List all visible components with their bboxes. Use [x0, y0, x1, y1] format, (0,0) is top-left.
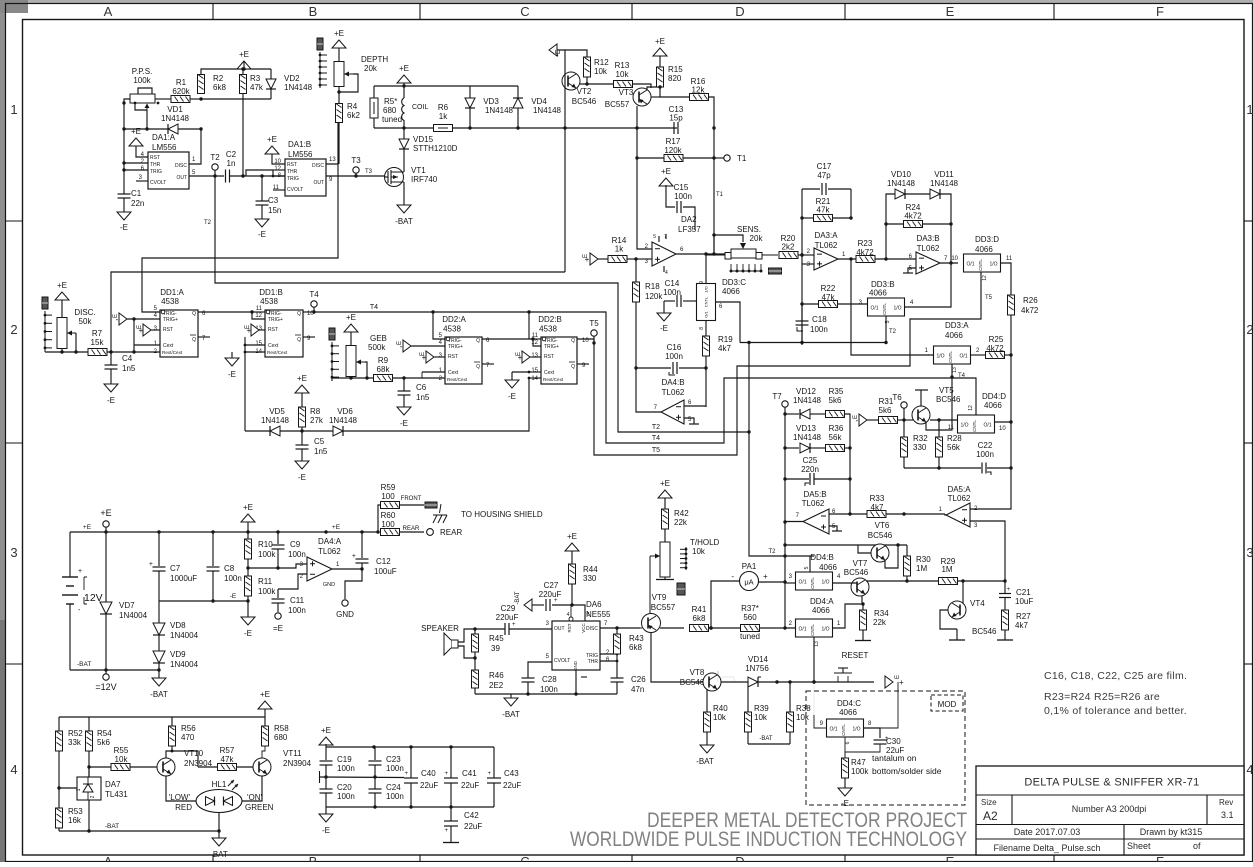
svg-text:-E: -E [660, 324, 668, 333]
svg-text:VT6: VT6 [875, 521, 890, 530]
svg-text:4066: 4066 [984, 401, 1002, 410]
svg-text:TRIG+: TRIG+ [163, 317, 178, 323]
ground -E c4 [104, 384, 118, 392]
wire vt8 out row [717, 670, 719, 676]
svg-text:11: 11 [948, 425, 955, 431]
svg-text:VD3: VD3 [483, 97, 499, 106]
wire da4a -in [278, 574, 307, 589]
svg-text:R53: R53 [68, 807, 83, 816]
wire [155, 98, 171, 100]
svg-text:+E: +E [83, 524, 92, 531]
svg-text:C16: C16 [667, 343, 682, 352]
wire DD3:C cntl [716, 302, 741, 343]
svg-text:100n: 100n [386, 764, 404, 773]
svg-text:BC546: BC546 [936, 395, 961, 404]
wire VD1 row [124, 128, 168, 130]
wire [190, 98, 201, 100]
power +E r8 [295, 385, 309, 393]
svg-text:4066: 4066 [812, 606, 830, 615]
connector pad disc [42, 297, 48, 309]
wire R12 bottom to base row [580, 77, 587, 84]
svg-text:DD4:A: DD4:A [810, 597, 834, 606]
svg-text:DA3:A: DA3:A [814, 231, 838, 240]
connector pad sens [769, 268, 782, 274]
svg-text:MOD: MOD [938, 700, 957, 709]
svg-text:THR: THR [287, 169, 298, 175]
svg-text:RST: RST [567, 623, 572, 632]
svg-text:Q: Q [297, 311, 301, 317]
svg-text:C22: C22 [978, 441, 993, 450]
svg-text:6k8: 6k8 [693, 614, 706, 623]
svg-text:VD8: VD8 [170, 621, 186, 630]
wire +E rail [70, 531, 378, 533]
svg-text:+E: +E [660, 479, 670, 488]
svg-text:Q: Q [297, 337, 301, 343]
svg-text:TL431: TL431 [105, 790, 128, 799]
wire T4 drop to dd2a trig [433, 312, 445, 339]
wire DA3B feedback [904, 224, 951, 307]
wire CVOLT stub B [273, 189, 285, 191]
MOD label box [931, 695, 963, 711]
svg-text:A: A [104, 4, 113, 19]
svg-text:-BAT: -BAT [105, 823, 119, 830]
svg-text:Rext/Cext: Rext/Cext [267, 350, 288, 355]
power -BAT r40 [700, 745, 714, 753]
power +E disc [55, 292, 69, 300]
ground -E c6 [397, 407, 411, 415]
wire THR/TRIG tie [273, 169, 285, 171]
svg-text:R6: R6 [438, 103, 449, 112]
svg-text:100k: 100k [133, 76, 151, 85]
svg-text:-E: -E [244, 629, 252, 638]
wire dd2a Qbar stub [482, 363, 494, 365]
svg-text:15p: 15p [669, 114, 683, 123]
svg-text:TRIG+: TRIG+ [448, 344, 463, 350]
svg-text:RESET: RESET [842, 651, 869, 660]
grid tick [6, 220, 23, 222]
svg-text:R7: R7 [92, 329, 103, 338]
svg-text:1M: 1M [916, 564, 927, 573]
svg-text:C25: C25 [803, 456, 818, 465]
svg-text:-BAT: -BAT [150, 690, 168, 699]
power -BAT 555 [510, 694, 512, 698]
svg-text:R54: R54 [97, 729, 112, 738]
node T5 terminal [591, 330, 597, 336]
svg-text:100n: 100n [386, 792, 404, 801]
grid tick [212, 4, 214, 20]
svg-text:8: 8 [587, 612, 590, 618]
wire bottom rail led [59, 830, 219, 832]
svg-text:DISC: DISC [175, 163, 187, 169]
svg-text:VD14: VD14 [748, 655, 769, 664]
svg-text:SPEAKER: SPEAKER [421, 624, 459, 633]
wire C2 to DA1:B TRIG [246, 175, 285, 177]
svg-text:22n: 22n [131, 199, 144, 208]
svg-text:330: 330 [913, 443, 927, 452]
wire T5 route [594, 272, 981, 455]
svg-text:PA1: PA1 [742, 562, 757, 571]
wire DISC up to R2 [189, 129, 201, 164]
svg-text:CNTL: CNTL [978, 259, 983, 271]
grid tick [6, 442, 23, 444]
wire VT6 base [858, 545, 871, 553]
wire caps mid tie [319, 771, 321, 783]
svg-text:R1: R1 [176, 78, 187, 87]
svg-text:220n: 220n [801, 465, 819, 474]
svg-text:3: 3 [1246, 545, 1253, 560]
wire VT2 to R7 node [111, 272, 565, 352]
svg-text:P.P.S.: P.P.S. [132, 67, 153, 76]
svg-text:15: 15 [255, 341, 262, 347]
svg-text:Size: Size [981, 798, 997, 807]
svg-text:DD3:D: DD3:D [975, 235, 999, 244]
ground -E r11 [241, 617, 255, 625]
svg-text:Q: Q [571, 338, 575, 344]
power +E dd1b rst [251, 324, 259, 336]
wire top rail led [59, 716, 265, 718]
svg-text:100n: 100n [663, 288, 681, 297]
svg-text:R37*: R37* [741, 604, 759, 613]
wire cvolt c28 [528, 662, 552, 678]
svg-text:GND: GND [573, 660, 578, 671]
svg-text:C6: C6 [416, 383, 427, 392]
svg-text:VD9: VD9 [170, 650, 186, 659]
wire vt9 row [620, 627, 642, 629]
svg-text:+E: +E [346, 313, 356, 322]
svg-text:470: 470 [181, 733, 195, 742]
wire R32 top [903, 420, 905, 437]
svg-text:DA4:B: DA4:B [661, 378, 684, 387]
svg-text:3: 3 [10, 545, 17, 560]
svg-text:VCC: VCC [581, 623, 586, 633]
svg-text:R57: R57 [220, 746, 235, 755]
wire DA3A -in [800, 253, 803, 256]
svg-text:13: 13 [329, 157, 336, 163]
svg-text:C28: C28 [542, 675, 557, 684]
node T3 [353, 167, 359, 173]
connector pad geb [329, 328, 335, 340]
svg-text:1n5: 1n5 [314, 447, 328, 456]
svg-text:1/O: 1/O [989, 262, 997, 268]
svg-text:C41: C41 [462, 769, 477, 778]
wire vt2 base row [587, 83, 614, 85]
terminal GND [342, 600, 348, 606]
svg-text:20k: 20k [750, 234, 764, 243]
svg-text:+: + [1006, 587, 1010, 593]
svg-text:22uF: 22uF [461, 781, 479, 790]
svg-text:100n: 100n [224, 574, 242, 583]
svg-text:1/O: 1/O [704, 286, 709, 292]
svg-text:C5: C5 [314, 437, 325, 446]
svg-text:R4: R4 [347, 102, 358, 111]
terminal =E [275, 613, 281, 619]
wire dd1b Qbar stub [303, 336, 315, 338]
ground -E dd2a trig+ [403, 340, 411, 352]
svg-text:R46: R46 [489, 671, 504, 680]
wire DD3D cntl T5 [980, 272, 982, 290]
wire dd4b cntl [809, 556, 811, 572]
svg-text:10k: 10k [713, 713, 727, 722]
wire dd2b Qbar stub [577, 363, 589, 365]
svg-text:+E: +E [661, 167, 671, 176]
svg-text:100n: 100n [976, 450, 994, 459]
svg-text:BC546: BC546 [972, 627, 997, 636]
wire DA4B +in gnd [684, 418, 694, 424]
svg-text:10: 10 [951, 256, 958, 262]
svg-text:BC546: BC546 [868, 531, 893, 540]
wire to vcc/rst [572, 605, 585, 621]
wire speaker leads [458, 629, 475, 642]
svg-text:4066: 4066 [869, 289, 887, 298]
svg-text:Rext/Cext: Rext/Cext [162, 350, 183, 355]
svg-text:C40: C40 [421, 769, 436, 778]
svg-text:O/1: O/1 [829, 727, 837, 733]
svg-text:E: E [946, 4, 955, 19]
wire DA4B out [636, 368, 661, 412]
svg-text:10k: 10k [115, 755, 129, 764]
power +E [237, 61, 251, 69]
svg-text:TL062: TL062 [917, 244, 940, 253]
ground -E dd1a trig [119, 313, 127, 325]
wire PA1 plus [759, 581, 786, 583]
svg-text:Date 2017.07.03: Date 2017.07.03 [1014, 827, 1081, 837]
wire cntl bus t2 [740, 342, 886, 344]
ground -E caps [325, 807, 327, 814]
svg-text:R19: R19 [718, 335, 733, 344]
wire DA3B out [940, 262, 958, 264]
svg-text:4k72: 4k72 [904, 212, 922, 221]
svg-text:47k: 47k [250, 83, 264, 92]
power +E coil [397, 75, 411, 83]
wire DD3B cntl T2 [885, 316, 887, 343]
svg-text:C15: C15 [674, 183, 689, 192]
svg-text:6: 6 [845, 741, 851, 744]
svg-text:C: C [520, 854, 529, 862]
svg-text:T1: T1 [716, 192, 724, 198]
svg-text:56k: 56k [947, 443, 961, 452]
power +E depth [332, 40, 346, 48]
power +E c15 [659, 178, 673, 186]
svg-text:=E: =E [273, 624, 283, 633]
svg-text:9: 9 [699, 281, 705, 284]
svg-text:DD1:A: DD1:A [160, 288, 184, 297]
svg-text:CNTL: CNTL [810, 577, 815, 589]
svg-text:R13: R13 [615, 61, 630, 70]
svg-text:DD4:D: DD4:D [982, 392, 1006, 401]
svg-text:50k: 50k [79, 317, 93, 326]
svg-text:T6: T6 [892, 393, 902, 402]
svg-text:VD10: VD10 [891, 170, 912, 179]
wire da7 left [59, 787, 77, 789]
wire VT1 gate [385, 176, 388, 178]
chassis ground symbol [433, 504, 447, 523]
svg-text:T2: T2 [204, 220, 212, 226]
grid tick [1053, 4, 1055, 20]
svg-text:R18: R18 [645, 282, 660, 291]
node T4 terminal [311, 301, 317, 307]
svg-text:R41: R41 [692, 605, 707, 614]
svg-text:VT4: VT4 [970, 599, 985, 608]
ground -E for C3 [255, 219, 269, 227]
svg-text:4066: 4066 [819, 563, 837, 572]
power +E r15 [653, 48, 667, 56]
svg-text:RST: RST [544, 354, 554, 360]
svg-text:100k: 100k [258, 550, 276, 559]
svg-text:RED: RED [175, 803, 192, 812]
svg-text:DISC.: DISC. [74, 308, 95, 317]
svg-text:FRONT: FRONT [401, 496, 422, 502]
svg-text:C26: C26 [631, 675, 646, 684]
svg-text:E: E [245, 325, 251, 329]
ground -E c5 [295, 461, 309, 469]
svg-text:12: 12 [531, 340, 538, 346]
wire vt9 collector to vt8 [651, 632, 703, 682]
wire dd4d in [930, 419, 958, 421]
grid tick [844, 4, 846, 20]
power -BAT led [212, 838, 226, 846]
wire DA5B out [785, 521, 803, 523]
ground bar r27 [997, 639, 1013, 641]
wire DA3B +in gnd [908, 268, 916, 273]
svg-text:Cext: Cext [163, 343, 174, 349]
wire dd1a Q to dd1b [198, 312, 265, 319]
svg-text:C11: C11 [290, 596, 305, 605]
svg-text:T3: T3 [351, 156, 361, 165]
title block [976, 766, 1244, 855]
wire r54 to da7 [88, 767, 90, 777]
svg-text:VD6: VD6 [337, 407, 353, 416]
svg-text:6k2: 6k2 [347, 111, 360, 120]
wire DA5A +in [970, 521, 1005, 581]
svg-text:R3: R3 [250, 74, 261, 83]
svg-text:11: 11 [1006, 256, 1013, 262]
svg-text:=12V: =12V [95, 682, 116, 692]
svg-text:C17: C17 [817, 162, 832, 171]
svg-text:5k6: 5k6 [97, 738, 110, 747]
svg-text:DEPTH: DEPTH [361, 55, 388, 64]
wire T2 route [215, 176, 749, 432]
connector pad [317, 38, 323, 50]
svg-text:2: 2 [90, 795, 96, 798]
ground bar c42 [443, 842, 459, 844]
svg-text:560: 560 [743, 613, 757, 622]
svg-text:2: 2 [10, 322, 17, 337]
svg-text:C19: C19 [337, 755, 352, 764]
svg-text:C18: C18 [812, 315, 827, 324]
svg-text:+: + [78, 568, 82, 575]
svg-text:15n: 15n [268, 206, 281, 215]
wire main row 581 [866, 580, 1005, 582]
svg-text:GEB: GEB [370, 334, 387, 343]
svg-text:2N3904: 2N3904 [283, 759, 312, 768]
svg-text:4066: 4066 [722, 287, 740, 296]
svg-text:O/1: O/1 [798, 627, 806, 633]
svg-text:+: + [512, 622, 516, 628]
svg-text:4k7: 4k7 [1015, 621, 1028, 630]
svg-text:3.1: 3.1 [1221, 810, 1234, 820]
svg-text:22uF: 22uF [464, 822, 482, 831]
svg-text:E: E [946, 854, 955, 862]
wire DA2 out [676, 253, 726, 255]
wire DD3A in [851, 259, 934, 355]
svg-text:C4: C4 [122, 354, 133, 363]
wire dd1a Qbar stub [198, 336, 210, 338]
svg-text:O/1: O/1 [983, 423, 991, 429]
svg-text:μA: μA [744, 578, 753, 587]
svg-text:C21: C21 [1016, 588, 1031, 597]
svg-text:C1: C1 [131, 189, 142, 198]
svg-text:VD12: VD12 [796, 387, 817, 396]
connector comb thold [685, 547, 687, 570]
svg-text:6k8: 6k8 [629, 643, 642, 652]
power -BAT vt1 [397, 205, 411, 213]
power +E for DA1:B RST [265, 146, 279, 154]
wire dd2a cext [421, 372, 423, 378]
svg-text:B: B [309, 854, 318, 862]
svg-text:LF357: LF357 [678, 225, 701, 234]
wire dd1a cext [133, 319, 135, 352]
svg-text:tuned: tuned [382, 115, 402, 124]
svg-text:R52: R52 [68, 729, 83, 738]
svg-text:R33: R33 [870, 494, 885, 503]
wire dd1b cext tie [244, 337, 246, 431]
svg-text:R2: R2 [213, 74, 224, 83]
grid tick [6, 663, 23, 665]
svg-text:100k: 100k [851, 767, 869, 776]
svg-text:15: 15 [531, 368, 538, 374]
ground -E dd1b [231, 352, 233, 358]
svg-text:T2: T2 [652, 424, 660, 431]
svg-text:GND: GND [336, 610, 354, 619]
svg-text:R38: R38 [796, 704, 811, 713]
svg-text:12: 12 [274, 166, 281, 172]
svg-text:VT1: VT1 [411, 166, 426, 175]
svg-text:REAR: REAR [440, 528, 462, 537]
svg-text:1n5: 1n5 [416, 393, 430, 402]
wire vt3 collector down [636, 106, 638, 248]
wire DISC B up [326, 121, 338, 164]
svg-text:-BAT: -BAT [395, 217, 413, 226]
svg-text:8: 8 [699, 327, 705, 330]
svg-text:6k8: 6k8 [213, 83, 226, 92]
svg-text:2k2: 2k2 [782, 243, 795, 252]
svg-text:R8: R8 [310, 407, 321, 416]
svg-text:HL1: HL1 [212, 780, 227, 789]
svg-text:-: - [731, 572, 734, 581]
svg-text:47p: 47p [817, 171, 831, 180]
svg-text:O/1: O/1 [704, 311, 709, 318]
svg-text:of: of [1193, 841, 1201, 851]
svg-text:-E: -E [322, 826, 330, 835]
svg-text:TL062: TL062 [318, 547, 341, 556]
svg-text:R47: R47 [851, 758, 866, 767]
svg-text:Q: Q [571, 364, 575, 370]
svg-text:TL062: TL062 [662, 388, 685, 397]
wire VT1 source [403, 182, 405, 205]
wire vt8 emitter [706, 689, 708, 712]
svg-text:4: 4 [10, 762, 17, 777]
svg-text:+E: +E [267, 135, 277, 144]
svg-text:CVOLT: CVOLT [554, 658, 570, 664]
svg-text:D: D [735, 854, 744, 862]
wire TRIG [124, 169, 148, 171]
wire R2 top to +E rail [201, 69, 271, 75]
svg-text:Filename Delta_ Pulse.sch: Filename Delta_ Pulse.sch [993, 843, 1100, 853]
svg-text:tantalum on: tantalum on [872, 753, 917, 763]
wire dd4d out [995, 421, 1012, 423]
svg-text:E: E [397, 341, 403, 345]
svg-text:VD5: VD5 [269, 407, 285, 416]
